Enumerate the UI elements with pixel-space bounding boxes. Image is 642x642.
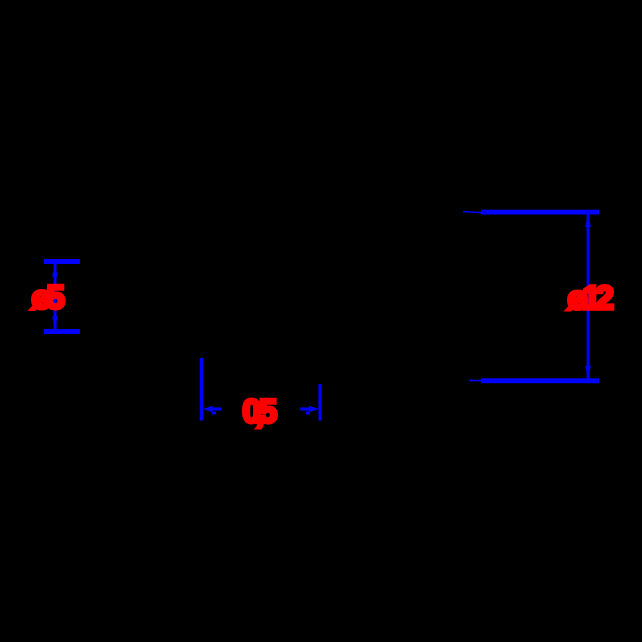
- dimension 0,5: left arrow tail: [211, 407, 221, 410]
- dimension 0,5: left extension line: [200, 358, 203, 421]
- dimension o12: bottom tick thin tail: [469, 380, 484, 382]
- dimension o5: top extension tick: [44, 259, 80, 264]
- dimension o12: bottom extension tick: [481, 378, 599, 383]
- dimension 0,5: left arrow nub: [212, 412, 216, 415]
- dimension o12: top extension tick: [481, 210, 599, 215]
- dimension 0,5: right arrow tail: [300, 407, 310, 410]
- dimension 0,5: right arrowhead: [309, 406, 319, 413]
- svg-text:ø5: ø5: [32, 279, 65, 316]
- dimension o12: down arrowhead: [585, 366, 591, 379]
- dimension 0,5: left arrowhead: [203, 406, 213, 413]
- dimension o5: vertical dimension line: [54, 264, 57, 329]
- svg-text:0,5: 0,5: [243, 393, 278, 430]
- dimension o5: down arrowhead: [52, 317, 58, 330]
- svg-text:ø12: ø12: [568, 279, 614, 316]
- dimension 0,5: right arrow nub: [306, 412, 310, 415]
- dimension o12: vertical dimension line: [587, 215, 590, 379]
- dimension o5: bottom extension tick: [44, 329, 80, 334]
- dimension 0,5: right extension line: [318, 384, 321, 421]
- dimension o12: top tick thin tail: [463, 211, 484, 214]
- dimension o5: up arrowhead: [52, 264, 58, 277]
- dimension o12: up arrowhead: [585, 215, 591, 228]
